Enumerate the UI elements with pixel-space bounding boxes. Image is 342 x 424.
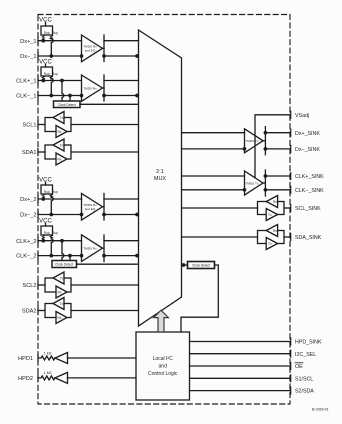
buffer SCL2 bidirectional xyxy=(38,272,139,298)
svg-text:CLK−_SINK: CLK−_SINK xyxy=(295,188,324,194)
svg-text:Rup: Rup xyxy=(44,231,50,235)
chip boundary dashed box xyxy=(38,15,290,405)
wire clock detect sink to control logic xyxy=(181,265,218,332)
svg-text:S1/SCL: S1/SCL xyxy=(295,376,313,382)
svg-text:Rx: Rx xyxy=(57,158,61,162)
svg-text:Local I²C: Local I²C xyxy=(153,356,173,362)
node ch1 clock output bar xyxy=(103,75,105,101)
wire ch2 data to MUX xyxy=(103,199,139,216)
svg-text:1 kΩ: 1 kΩ xyxy=(44,371,52,375)
buffer HPD1 driver xyxy=(55,353,136,364)
svg-text:Tx: Tx xyxy=(60,116,64,120)
svg-text:S2/SDA: S2/SDA xyxy=(295,389,314,395)
resistor Rup pair (ch2 data) xyxy=(41,185,58,199)
svg-text:CLK+_1: CLK+_1 xyxy=(16,79,36,85)
svg-text:SDA_SINK: SDA_SINK xyxy=(295,235,322,241)
wire hop (ch2 data Rup to Dx-_2) xyxy=(42,197,53,216)
node ch2 clock output bar xyxy=(103,235,105,262)
wire Dx-_2 xyxy=(38,214,82,216)
wire CLK-_1 xyxy=(38,95,82,97)
svg-text:Rx: Rx xyxy=(273,200,277,204)
svg-text:Dx+_1: Dx+_1 xyxy=(20,39,36,45)
resistor 1 kOhm (HPD2) xyxy=(38,371,55,380)
resistor 1 kOhm (HPD1) xyxy=(38,351,55,360)
svg-text:2:1: 2:1 xyxy=(156,169,164,175)
svg-text:Dx−_2: Dx−_2 xyxy=(20,213,36,219)
svg-text:and EQ: and EQ xyxy=(85,48,96,52)
svg-text:Rx: Rx xyxy=(57,130,61,134)
wire CLK+_1 xyxy=(38,80,82,82)
node VCC (ch1 data pull-up) xyxy=(39,18,52,27)
wire CLK+_2 xyxy=(38,240,82,242)
wire ch2 clock to MUX xyxy=(103,241,139,257)
mux 2:1 MUX xyxy=(139,30,182,326)
pin ticks right edge xyxy=(290,111,292,394)
svg-text:CLK−_1: CLK−_1 xyxy=(16,94,36,100)
svg-text:Rup: Rup xyxy=(44,31,50,35)
svg-text:HPD1: HPD1 xyxy=(18,356,33,362)
wire Dx+_1 xyxy=(38,40,82,42)
svg-text:Tx: Tx xyxy=(60,302,64,306)
svg-text:and EQ: and EQ xyxy=(85,207,96,211)
svg-text:B-0353-01: B-0353-01 xyxy=(312,408,329,412)
wire S2/SDA xyxy=(190,390,291,392)
control logic block U1 xyxy=(136,332,190,400)
driver TMDS Tx (sink clock) xyxy=(245,171,264,195)
svg-text:Tx: Tx xyxy=(268,242,272,246)
wire clock detect tap CLK+_2 xyxy=(61,240,64,261)
wire OE xyxy=(190,365,291,367)
wire CLK-_2 xyxy=(38,255,82,257)
wire clock detect tap CLK-_2 xyxy=(69,254,71,260)
svg-text:Rup: Rup xyxy=(44,190,50,194)
svg-text:Rup: Rup xyxy=(52,231,58,235)
driver TMDS Tx (sink data) xyxy=(245,129,264,153)
wire S1/SCL xyxy=(190,377,291,379)
svg-text:OE: OE xyxy=(295,364,303,370)
svg-text:Dx+_SINK: Dx+_SINK xyxy=(295,131,320,137)
svg-text:SCL2: SCL2 xyxy=(23,283,37,289)
wire ch1 data to MUX xyxy=(103,41,139,58)
svg-text:1 kΩ: 1 kΩ xyxy=(44,351,52,355)
wire hop (ch1 clock Rup to CLK-_1) xyxy=(42,79,53,97)
wire ch1 clock to MUX xyxy=(103,81,139,97)
buffer SDA2 bidirectional xyxy=(38,298,139,324)
wire Dx-_1 xyxy=(38,55,82,57)
svg-text:Tx: Tx xyxy=(60,277,64,281)
svg-text:SDA2: SDA2 xyxy=(22,309,37,315)
pin ticks left edge xyxy=(37,37,39,381)
buffer SCL1 bidirectional xyxy=(38,112,139,138)
node ch2 data output bar xyxy=(103,194,105,221)
svg-text:Tx: Tx xyxy=(60,144,64,148)
node VCC (ch2 data pull-up) xyxy=(39,178,52,186)
svg-text:HPD_SINK: HPD_SINK xyxy=(295,340,322,346)
svg-text:SCL_SINK: SCL_SINK xyxy=(295,206,321,212)
amplifier TMDS Rx (ch1 clock) xyxy=(80,75,102,101)
svg-text:and: and xyxy=(159,364,168,370)
amplifier TMDS Rx (ch2 clock) xyxy=(80,235,102,262)
svg-text:Dx−_1: Dx−_1 xyxy=(20,54,36,60)
svg-text:Dx−_SINK: Dx−_SINK xyxy=(295,147,320,153)
wire I2C_SEL xyxy=(190,353,291,355)
svg-text:SDA1: SDA1 xyxy=(22,150,37,156)
node sink clock output bar xyxy=(263,170,265,196)
wire Dx+_2 xyxy=(38,198,82,200)
svg-text:HPD2: HPD2 xyxy=(18,376,33,382)
wire clock detect ch2 to MUX xyxy=(77,263,139,265)
clock detect block (ch1) xyxy=(54,101,81,108)
node VSadj xyxy=(255,115,290,178)
svg-text:Rup: Rup xyxy=(52,190,58,194)
amplifier TMDS Rx and EQ (ch2 data) xyxy=(80,193,102,220)
resistor Rup pair (ch1 clock) xyxy=(41,67,58,81)
wire HPD_SINK xyxy=(190,341,291,343)
node VCC (ch2 clock pull-up) xyxy=(39,219,52,227)
svg-text:CLK+_SINK: CLK+_SINK xyxy=(295,174,324,180)
amplifier TMDS Rx and EQ (ch1 data) xyxy=(80,35,102,62)
svg-text:TMDS Tx: TMDS Tx xyxy=(245,181,258,185)
svg-text:Clock Detect: Clock Detect xyxy=(192,264,210,268)
wire CLK+_SINK xyxy=(264,175,290,177)
node VCC (ch1 clock pull-up) xyxy=(39,60,52,68)
wire MUX to sink data driver xyxy=(182,133,246,150)
node ch1 data output bar xyxy=(103,35,105,62)
svg-text:Control Logic: Control Logic xyxy=(148,371,178,377)
control bus block arrow into MUX xyxy=(154,310,169,332)
wire hop (ch1 data Rup to Dx-_1) xyxy=(42,39,53,57)
wire clock detect tap CLK+_1 xyxy=(61,79,64,101)
svg-text:Clock Detect: Clock Detect xyxy=(58,103,76,107)
svg-text:CLK−_2: CLK−_2 xyxy=(16,254,36,260)
svg-text:Clock Detect: Clock Detect xyxy=(55,263,73,267)
node sink data output bar xyxy=(263,127,265,155)
buffer SCL_SINK bidirectional xyxy=(182,196,291,221)
svg-text:Rup: Rup xyxy=(44,72,50,76)
buffer SDA_SINK bidirectional xyxy=(182,225,291,250)
svg-text:VSadj: VSadj xyxy=(295,113,309,119)
resistor Rup pair (ch2 clock) xyxy=(41,226,58,241)
svg-text:TMDS Rx: TMDS Rx xyxy=(83,246,97,250)
clock detect block (ch2) xyxy=(52,261,77,268)
svg-text:Rup: Rup xyxy=(52,72,58,76)
wire hop (ch2 clock Rup to CLK-_2) xyxy=(42,239,53,257)
wire clock detect tap CLK-_1 xyxy=(69,94,71,101)
wire Dx-_SINK xyxy=(264,148,290,150)
resistor Rup pair (ch1 data) xyxy=(41,26,58,41)
clock detect block (sink side) xyxy=(182,262,215,269)
buffer SDA1 bidirectional xyxy=(38,139,139,165)
svg-text:Rup: Rup xyxy=(52,31,58,35)
svg-text:TMDS Tx: TMDS Tx xyxy=(245,139,258,143)
buffer HPD2 driver xyxy=(55,372,136,383)
svg-text:SCL1: SCL1 xyxy=(23,123,37,129)
svg-text:Rx: Rx xyxy=(57,316,61,320)
svg-text:CLK+_2: CLK+_2 xyxy=(16,239,36,245)
wire MUX to sink clock driver xyxy=(182,176,246,191)
wire clock detect ch1 to MUX xyxy=(80,103,139,105)
svg-text:MUX: MUX xyxy=(154,176,167,182)
svg-text:Tx: Tx xyxy=(268,213,272,217)
overline for OE xyxy=(295,362,303,364)
wire CLK-_SINK xyxy=(264,189,290,191)
svg-text:Dx+_2: Dx+_2 xyxy=(20,197,36,203)
svg-text:I2C_SEL: I2C_SEL xyxy=(295,352,316,358)
svg-text:Rx: Rx xyxy=(57,291,61,295)
svg-text:Rx: Rx xyxy=(273,229,277,233)
wire Dx+_SINK xyxy=(264,132,290,134)
svg-text:TMDS Rx: TMDS Rx xyxy=(83,86,97,90)
